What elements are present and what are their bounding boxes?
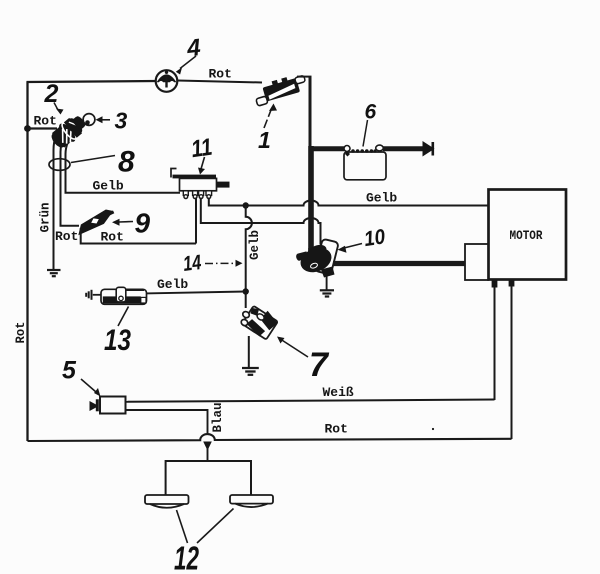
line from 12 to left horn [177, 510, 188, 543]
svg-text:Rot: Rot [34, 114, 57, 129]
svg-text:Rot: Rot [55, 229, 78, 244]
svg-text:3: 3 [115, 108, 128, 134]
arrow from 3 to bulb [96, 116, 111, 123]
svg-text:8: 8 [118, 146, 135, 179]
arrow from 2 to headlight [54, 103, 64, 115]
wire Rot via connector 9 [61, 140, 80, 226]
svg-text:9: 9 [135, 208, 151, 239]
line from 8 to ellipse [71, 156, 115, 163]
connector 1 [252, 72, 308, 106]
line from 13 to component [118, 307, 129, 327]
horn disc left 12 [145, 495, 189, 508]
svg-text:Rot: Rot [13, 322, 28, 344]
ground (coil) [320, 290, 334, 296]
arrow from 10 to coil [338, 244, 363, 253]
wire Gelb 14 vertical (hop over T3 wire) [246, 206, 252, 309]
wire T3 right to coil (hop over thick line) [201, 198, 321, 245]
wire fork to horns [166, 461, 251, 495]
MOTOR box [489, 190, 567, 280]
motor pin left [492, 281, 498, 288]
junction dot border/headlight [24, 125, 31, 132]
line from 6 to battery [363, 120, 368, 147]
wire thick coil to motor [333, 261, 466, 266]
junction dot Gelb main/14 [243, 202, 249, 208]
svg-text:Rot: Rot [101, 230, 124, 245]
svg-text:Gelb: Gelb [157, 277, 188, 292]
ground (component 7) [242, 368, 259, 375]
wire thick battery right with arrow [383, 141, 435, 157]
wire Blau from switch 5 [126, 410, 208, 433]
svg-text:Rot: Rot [209, 67, 232, 82]
bulb 3 [83, 114, 95, 126]
svg-text:Weiß: Weiß [323, 385, 354, 400]
svg-text:14: 14 [182, 251, 203, 276]
ellipse 8 around wires [49, 159, 70, 171]
svg-text:12: 12 [174, 540, 199, 574]
wire coil to ground [326, 276, 328, 290]
ignition coil 10 [295, 239, 338, 278]
arrow from 5 to switch [81, 379, 101, 397]
arrow from 9 to connector [112, 219, 133, 226]
arrow from 14 to Gelb wire [205, 260, 243, 267]
arrowhead on Blau wire [203, 442, 212, 451]
svg-text:13: 13 [104, 324, 131, 357]
svg-text:Grün: Grün [39, 202, 53, 232]
motor pin right [509, 281, 515, 287]
wire 7 to ground [248, 336, 250, 368]
wire Gruen (headlight to ground) [54, 136, 57, 270]
motor terminal box [465, 244, 489, 280]
wire Gelb (headlight down) [66, 142, 181, 193]
wire T4 Gelb main to motor (hop over thick line) [209, 198, 488, 206]
svg-text:MOTOR: MOTOR [510, 229, 543, 243]
wire Weiss vertical [494, 287, 496, 400]
arrow from 1 to connector [264, 104, 277, 129]
line from component 7 to label [277, 337, 308, 358]
wire Gelb from component 13 [145, 292, 246, 294]
svg-text:Gelb: Gelb [248, 230, 262, 260]
line from 12 to right horn [197, 509, 234, 544]
wire Weiss horizontal [125, 400, 495, 402]
wire Rot stub to headlight [28, 127, 58, 129]
svg-text:6: 6 [365, 101, 377, 124]
svg-text:Rot: Rot [325, 422, 348, 437]
svg-text:Gelb: Gelb [366, 191, 397, 206]
svg-text:2: 2 [44, 80, 59, 108]
headlamp socket 2 [47, 111, 89, 152]
svg-text:10: 10 [363, 225, 387, 251]
wire connector1 to top-right corner [297, 76, 312, 78]
wire Blau lower [207, 447, 209, 461]
wire top Rot (border to lamp 4) [27, 81, 157, 82]
arrow from 4 to lamp [176, 56, 196, 75]
junction dot 14/component13 [243, 288, 249, 294]
wire lamp4 to connector 1 [178, 81, 263, 83]
wire thick vertical lower [308, 146, 314, 252]
svg-text:1: 1 [258, 127, 271, 153]
arrow from 11 to switch [198, 157, 205, 175]
brake switch 7 [237, 300, 280, 341]
svg-text:Gelb: Gelb [93, 179, 124, 194]
wire Rot bottom (hop over Blau) [28, 434, 512, 441]
ground (Gruen wire) [47, 270, 61, 276]
wire left border Rot [26, 82, 28, 442]
wire connector9 to switch T2 [81, 228, 196, 244]
wire Rot right vertical [511, 286, 513, 439]
wire thick to battery [310, 146, 345, 151]
svg-text:7: 7 [309, 346, 330, 384]
lamp U4 (circle symbol) [156, 70, 178, 92]
svg-text:11: 11 [189, 134, 214, 164]
wire thick vertical upper [309, 76, 312, 148]
svg-text:5: 5 [62, 357, 77, 385]
horn disc right 12 [230, 495, 273, 507]
ignition switch 11 [171, 169, 230, 199]
connector 9 [73, 207, 116, 236]
horn switch 5 [90, 397, 126, 414]
component 13 (condenser) [86, 287, 146, 304]
wire T2 down [195, 198, 197, 244]
battery B6 [344, 145, 386, 180]
svg-text:Blau: Blau [211, 402, 225, 432]
